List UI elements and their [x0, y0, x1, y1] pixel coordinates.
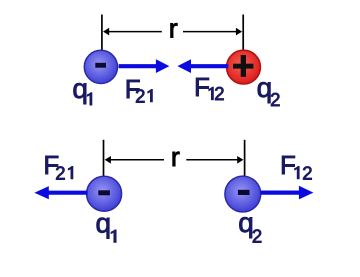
svg-text:2: 2 — [135, 85, 145, 106]
force arrow F21 (bottom, points left) — [34, 186, 87, 199]
charge q1: blue sphere (top) — [84, 50, 117, 83]
wire: top dimension right tick — [242, 15, 244, 51]
charge q2: blue sphere (bottom) — [225, 176, 261, 212]
wire: top dimension right arrow segment — [183, 28, 242, 36]
wire: bottom dimension right arrow segment — [186, 156, 243, 164]
svg-text:q: q — [72, 73, 88, 104]
svg-text:q: q — [96, 208, 112, 239]
force arrow F12 (bottom, points right) — [261, 186, 314, 200]
label F12 (bottom) — [280, 150, 312, 183]
svg-text:2: 2 — [252, 226, 262, 247]
svg-text:2: 2 — [55, 162, 65, 183]
label q1 (top) — [72, 73, 92, 105]
minus sign on bottom q2 — [238, 190, 250, 195]
svg-text:2: 2 — [270, 89, 280, 110]
svg-text:2: 2 — [302, 162, 312, 183]
wire: bottom dimension right tick — [244, 140, 246, 176]
charge q2: red sphere (top) — [227, 50, 261, 84]
svg-text:F: F — [194, 72, 210, 102]
svg-text:r: r — [169, 14, 178, 44]
label q2 (top) — [257, 72, 281, 110]
wire: top dimension left arrow segment — [103, 28, 162, 36]
wire: bottom dimension left tick — [103, 140, 105, 177]
wire: top dimension left tick — [101, 15, 103, 51]
force arrow F21 (top, points right) — [119, 59, 170, 73]
svg-text:F: F — [280, 150, 296, 180]
wire: bottom dimension left arrow segment — [105, 156, 164, 164]
label q1 (bottom) — [96, 208, 117, 243]
label F21 (top) — [125, 74, 153, 106]
svg-text:r: r — [171, 142, 180, 172]
minus sign on q1 (top) — [95, 63, 106, 68]
label F21 (bottom) — [43, 150, 73, 183]
force arrow F12 (top, points left) — [177, 59, 228, 73]
label F12 (top) — [194, 72, 225, 104]
label q2 (bottom) — [238, 207, 262, 247]
plus sign on q2 (top) — [233, 55, 253, 77]
svg-text:2: 2 — [214, 83, 224, 104]
minus sign on bottom q1 — [98, 190, 110, 195]
charge q1: blue sphere (bottom) — [87, 176, 122, 211]
